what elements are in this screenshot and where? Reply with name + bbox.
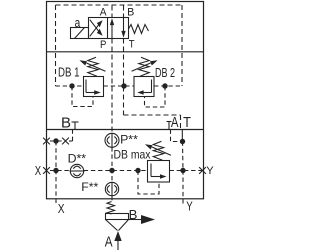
svg-text:B: B: [61, 116, 71, 132]
svg-text:DB 1: DB 1: [58, 65, 80, 79]
svg-text:a: a: [75, 15, 81, 30]
svg-text:B: B: [127, 7, 134, 19]
svg-text:DB 2: DB 2: [155, 66, 175, 80]
svg-text:Y: Y: [206, 165, 214, 177]
svg-text:P**: P**: [120, 132, 138, 146]
svg-text:T: T: [129, 38, 135, 50]
svg-text:B: B: [129, 207, 138, 222]
svg-text:P: P: [100, 39, 106, 51]
svg-text:DB max: DB max: [114, 148, 152, 162]
svg-text:X: X: [58, 201, 65, 216]
svg-text:A: A: [105, 235, 113, 250]
svg-text:D**: D**: [68, 152, 87, 166]
svg-text:Y: Y: [186, 199, 193, 213]
svg-text:T: T: [183, 115, 191, 131]
svg-text:A: A: [171, 115, 179, 131]
svg-text:A: A: [100, 7, 107, 19]
svg-text:X: X: [35, 164, 42, 178]
svg-text:F**: F**: [81, 180, 98, 194]
